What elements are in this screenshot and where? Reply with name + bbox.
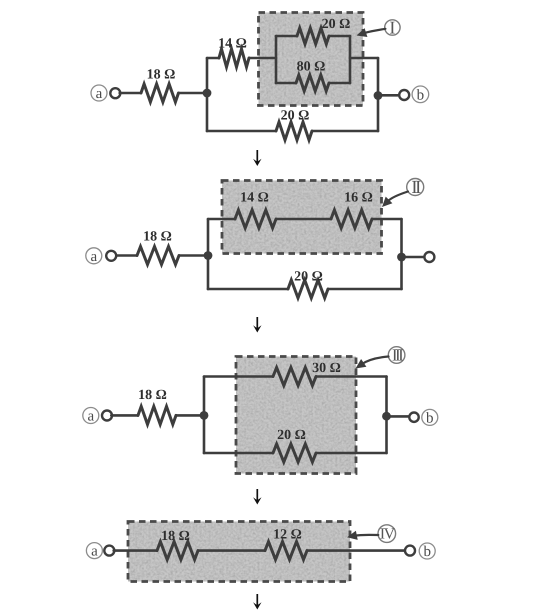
wire R18 to node (stage 1) [179, 92, 208, 95]
wire R18 to node (stage 2) [179, 254, 208, 257]
bottom branch (stage 3) [204, 452, 273, 455]
svg-text:a: a [90, 249, 97, 265]
svg-text:14 Ω: 14 Ω [240, 191, 269, 206]
svg-text:18 Ω: 18 Ω [143, 230, 172, 245]
stage arrow 1 [256, 150, 258, 163]
node left (stage 3) [200, 411, 209, 420]
svg-text:IV: IV [380, 526, 396, 543]
svg-text:b: b [426, 411, 434, 427]
resistor 18ohm (stage 1) [141, 84, 179, 102]
svg-text:16 Ω: 16 Ω [344, 191, 373, 206]
resistor 20ohm bottom (stage 2) [288, 280, 328, 298]
terminal a (stage 1) [91, 85, 107, 101]
node left (stage 1) [203, 89, 212, 98]
node right (stage 2) [397, 253, 406, 262]
svg-text:b: b [423, 544, 431, 560]
svg-text:20 Ω: 20 Ω [281, 109, 310, 124]
label circle II with arrow [407, 179, 424, 196]
svg-text:a: a [91, 544, 98, 560]
dashed box I [259, 13, 364, 106]
label circle IV with arrow [378, 525, 396, 543]
wire a to R 18ohm [120, 92, 141, 95]
resistor 14ohm (stage 2) [235, 210, 276, 228]
wire out of box IV to b [307, 549, 405, 552]
node right (stage 3) [382, 412, 391, 421]
svg-text:a: a [87, 409, 94, 425]
bottom 20ohm branch (stage 2) [208, 288, 288, 291]
svg-text:14 Ω: 14 Ω [218, 37, 247, 52]
bottom branch wire (box I) [276, 82, 296, 85]
bottom 20ohm branch (stage 1) [207, 130, 276, 133]
svg-text:20 Ω: 20 Ω [294, 270, 323, 285]
svg-text:30 Ω: 30 Ω [312, 361, 341, 376]
open terminal (stage 2) [424, 252, 434, 262]
top branch into box III [204, 375, 273, 378]
terminal a (stage 4) [86, 543, 102, 559]
wire between 14 and 16 [276, 218, 331, 221]
wire R14 into box I [249, 57, 276, 60]
svg-text:a: a [96, 86, 103, 102]
wire node to terminal (stage 2) [402, 256, 425, 259]
right vertical (stage 3) [385, 377, 388, 454]
resistor 14ohm (stage 1) [219, 49, 249, 67]
svg-text:18 Ω: 18 Ω [161, 529, 190, 544]
left vertical (stage 2) [207, 219, 210, 289]
wire into box II [208, 218, 235, 221]
stage arrow 2 [256, 317, 258, 330]
wire R18 to node (stage 3) [176, 414, 204, 417]
wire left vertical (stage 1) [206, 58, 209, 131]
wire to R 14ohm [207, 57, 219, 60]
wire a into box IV [114, 549, 157, 552]
left vertical (stage 3) [203, 377, 206, 454]
resistor 16ohm (stage 2) [331, 210, 372, 228]
svg-text:b: b [417, 87, 425, 103]
dashed box IV [128, 522, 350, 582]
dashed box III [236, 357, 356, 474]
label circle III with arrow [388, 347, 405, 364]
terminal b (stage 3) [409, 413, 418, 422]
svg-text:80 Ω: 80 Ω [297, 60, 326, 75]
svg-text:20 Ω: 20 Ω [322, 17, 351, 32]
resistor 18ohm (stage 4) [157, 542, 198, 560]
terminal b (stage 4) [405, 546, 415, 556]
top branch wire (box I) [276, 35, 297, 38]
wire node to terminal b (stage 1) [378, 94, 399, 97]
resistor 20ohm bottom (stage 1) [276, 122, 312, 140]
wire between 18 and 12 [198, 549, 265, 552]
terminal b (stage 1) [399, 90, 409, 100]
wire a to R18 (stage 3) [111, 414, 138, 417]
resistor 20ohm (stage 3) [273, 444, 316, 462]
svg-text:20 Ω: 20 Ω [277, 428, 306, 443]
parallel loop right bar (box I) [349, 36, 352, 83]
svg-text:18 Ω: 18 Ω [147, 68, 176, 83]
node right (stage 1) [374, 91, 383, 100]
dashed box II [222, 181, 382, 254]
node left (stage 2) [204, 251, 213, 260]
wire box I to right vertical [350, 57, 378, 60]
right vertical wire (stage 1) [377, 58, 380, 131]
terminal a (stage 2) [86, 248, 102, 264]
resistor 30ohm (stage 3) [273, 368, 316, 386]
wire a to R18 (stage 2) [117, 254, 137, 257]
label circle I with arrow [385, 20, 400, 35]
resistor 18ohm (stage 2) [137, 247, 179, 265]
resistor 18ohm (stage 3) [138, 406, 176, 424]
svg-text:12 Ω: 12 Ω [273, 528, 302, 543]
right vertical (stage 2) [400, 219, 403, 289]
stage arrow 3 [256, 489, 258, 502]
terminal a (stage 3) [83, 408, 99, 424]
parallel loop left bar (box I) [275, 36, 278, 83]
svg-text:I: I [389, 17, 395, 37]
resistor 80ohm (box I) [296, 75, 329, 91]
wire out of box II [372, 218, 402, 221]
svg-text:18 Ω: 18 Ω [138, 388, 167, 403]
resistor 20ohm top (box I) [297, 28, 329, 44]
resistor 12ohm (stage 4) [265, 542, 307, 560]
wire node to terminal b (stage 3) [387, 415, 410, 418]
stage arrow 4 [256, 594, 258, 607]
